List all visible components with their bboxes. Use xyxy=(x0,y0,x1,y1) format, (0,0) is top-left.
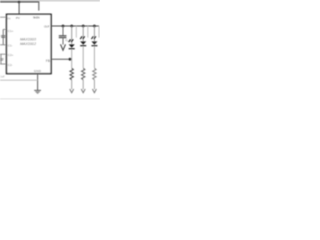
svg-text:FB: FB xyxy=(46,59,50,63)
svg-text:SHDN: SHDN xyxy=(33,16,40,20)
svg-text:C2+: C2+ xyxy=(8,53,14,57)
svg-text:MAX1912: MAX1912 xyxy=(20,42,36,46)
svg-text:C2: C2 xyxy=(0,57,4,61)
svg-text:C1: C1 xyxy=(0,34,4,38)
svg-text:C1-: C1- xyxy=(8,44,13,48)
svg-text:MAX1910: MAX1910 xyxy=(20,37,37,41)
svg-text:C2-: C2- xyxy=(8,63,13,67)
svg-text:C1+: C1+ xyxy=(8,29,14,33)
svg-text:1uF: 1uF xyxy=(0,75,5,79)
svg-text:OUT: OUT xyxy=(44,25,50,29)
svg-text:IN: IN xyxy=(7,17,10,21)
svg-text:GND: GND xyxy=(34,69,42,73)
